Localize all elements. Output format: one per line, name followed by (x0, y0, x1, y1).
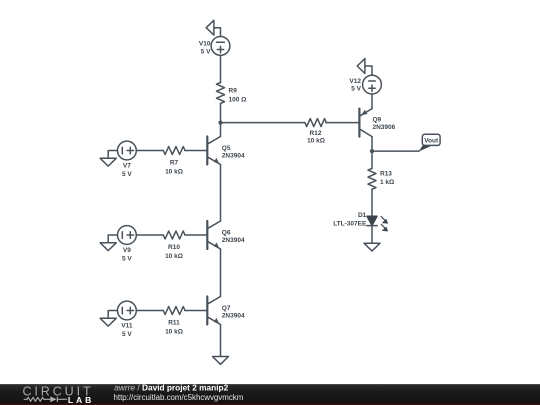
svg-text:V7: V7 (123, 163, 131, 170)
svg-text:R7: R7 (170, 160, 179, 167)
svg-text:Q5: Q5 (222, 145, 231, 152)
svg-text:R12: R12 (310, 130, 322, 137)
svg-text:V11: V11 (121, 323, 133, 330)
svg-text:Q6: Q6 (222, 229, 231, 236)
svg-text:V10: V10 (199, 41, 211, 48)
svg-text:2N3906: 2N3906 (373, 124, 396, 131)
svg-text:Q9: Q9 (373, 116, 382, 123)
svg-text:D1: D1 (358, 212, 367, 219)
svg-text:V12: V12 (349, 78, 361, 85)
svg-text:R10: R10 (168, 244, 180, 251)
svg-text:5 V: 5 V (351, 86, 361, 93)
svg-text:5 V: 5 V (122, 255, 132, 262)
svg-text:Vout: Vout (424, 137, 439, 144)
svg-text:2N3904: 2N3904 (222, 312, 245, 319)
svg-text:2N3904: 2N3904 (222, 237, 245, 244)
svg-text:V9: V9 (123, 247, 131, 254)
svg-text:1 kΩ: 1 kΩ (380, 179, 394, 186)
svg-text:R13: R13 (380, 170, 392, 177)
svg-text:10 kΩ: 10 kΩ (165, 329, 183, 336)
svg-text:Q7: Q7 (222, 305, 231, 312)
svg-text:R9: R9 (229, 88, 238, 95)
svg-text:5 V: 5 V (122, 331, 132, 338)
svg-text:http://circuitlab.com/c5khcwvg: http://circuitlab.com/c5khcwvgvmckm (114, 393, 244, 402)
svg-text:LAB: LAB (68, 395, 94, 405)
svg-text:awrre / David projet 2 manip2: awrre / David projet 2 manip2 (114, 383, 228, 393)
svg-text:5 V: 5 V (201, 49, 211, 56)
svg-text:5 V: 5 V (122, 171, 132, 178)
svg-text:R11: R11 (168, 320, 180, 327)
svg-text:2N3904: 2N3904 (222, 152, 245, 159)
svg-text:LTL-307EE: LTL-307EE (333, 220, 367, 227)
svg-text:100 Ω: 100 Ω (229, 97, 247, 104)
svg-text:10 kΩ: 10 kΩ (165, 253, 183, 260)
svg-text:10 kΩ: 10 kΩ (307, 138, 325, 145)
svg-text:10 kΩ: 10 kΩ (165, 169, 183, 176)
